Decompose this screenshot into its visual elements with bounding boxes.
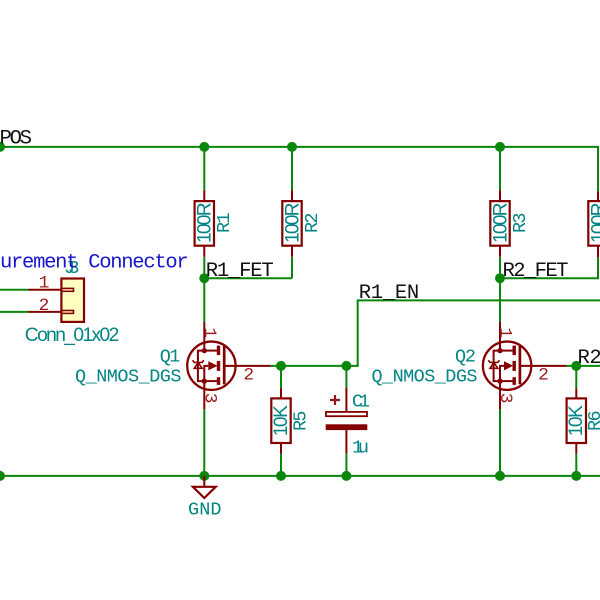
svg-text:3: 3 bbox=[200, 393, 220, 404]
svg-text:Conn_01x02: Conn_01x02 bbox=[25, 325, 120, 346]
svg-text:100R: 100R bbox=[195, 202, 216, 243]
svg-text:2: 2 bbox=[39, 296, 50, 316]
resistor R1 bbox=[195, 190, 235, 257]
wire R5 bottom bbox=[280, 454, 282, 476]
svg-text:GND: GND bbox=[188, 500, 222, 521]
junction top rail at R1 bbox=[199, 142, 209, 152]
resistor R5 bbox=[271, 388, 311, 453]
resistor R2 bbox=[282, 190, 323, 257]
junction bottom rail at GND bbox=[199, 471, 209, 481]
resistor R4 (cut at right edge) bbox=[588, 192, 600, 258]
wire R2_FET net bbox=[500, 257, 598, 279]
svg-text:Q_NMOS_DGS: Q_NMOS_DGS bbox=[75, 367, 182, 388]
wire Q2 drain drop bbox=[499, 278, 501, 322]
svg-text:R1: R1 bbox=[214, 212, 235, 233]
svg-text:POS: POS bbox=[0, 127, 32, 150]
connector J3 bbox=[25, 258, 120, 346]
svg-text:2: 2 bbox=[538, 365, 549, 385]
wire R1_EN net bbox=[270, 300, 600, 366]
junction top rail at R2 bbox=[287, 142, 297, 152]
svg-text:1: 1 bbox=[39, 274, 50, 294]
svg-text:Q2: Q2 bbox=[455, 347, 476, 368]
svg-text:1u: 1u bbox=[352, 437, 369, 458]
wire Q2 source drop bbox=[499, 409, 501, 476]
svg-text:3: 3 bbox=[495, 393, 515, 404]
wire R5 top bbox=[280, 366, 282, 388]
svg-text:100R: 100R bbox=[588, 202, 600, 243]
svg-text:C1: C1 bbox=[352, 391, 370, 412]
svg-text:R3: R3 bbox=[510, 212, 531, 233]
svg-text:R2_FET: R2_FET bbox=[503, 260, 569, 283]
junction bottom rail at R5 bbox=[276, 471, 286, 481]
transistor Q1 bbox=[75, 322, 270, 409]
junction top rail left edge bbox=[0, 142, 5, 152]
wire Q2 gate / R2_EN net bbox=[566, 365, 600, 367]
ground symbol bbox=[188, 476, 222, 521]
junction Q1 gate at R5 bbox=[276, 361, 286, 371]
wire Q1 drain drop bbox=[203, 278, 205, 322]
junction R1_FET node bbox=[199, 273, 209, 283]
wire J3 pin2 bbox=[0, 311, 29, 313]
wire R2 top drop bbox=[291, 147, 293, 190]
wire GND bottom rail bbox=[0, 475, 600, 477]
svg-text:1: 1 bbox=[199, 327, 219, 338]
svg-text:100R: 100R bbox=[490, 202, 511, 243]
junction R2_FET node bbox=[495, 273, 505, 283]
svg-text:R6: R6 bbox=[585, 410, 600, 431]
svg-text:10K: 10K bbox=[271, 405, 292, 436]
svg-text:R1_EN: R1_EN bbox=[359, 282, 419, 305]
junction bottom rail left edge bbox=[0, 471, 5, 481]
junction bottom rail at R6 bbox=[571, 471, 581, 481]
junction top rail at R3 bbox=[495, 142, 505, 152]
wire Q1 source drop bbox=[203, 409, 205, 476]
wire C1 top bbox=[345, 366, 347, 387]
resistor R6 bbox=[566, 388, 600, 453]
wire R6 top bbox=[575, 366, 577, 388]
wire R1_FET net bbox=[204, 257, 292, 279]
resistor R3 bbox=[490, 190, 531, 257]
svg-text:1: 1 bbox=[495, 327, 515, 338]
wire R6 bottom bbox=[575, 454, 577, 476]
wire C1 bottom bbox=[345, 453, 347, 476]
wire J3 pin1 bbox=[0, 289, 29, 291]
svg-text:R5: R5 bbox=[290, 410, 311, 431]
svg-text:R1_FET: R1_FET bbox=[206, 260, 274, 283]
svg-text:Q_NMOS_DGS: Q_NMOS_DGS bbox=[372, 367, 478, 388]
wire R3 top drop bbox=[499, 147, 501, 190]
junction bottom rail at Q2 bbox=[495, 471, 505, 481]
wire R1 top drop bbox=[203, 147, 205, 190]
svg-text:100R: 100R bbox=[282, 202, 303, 243]
svg-text:urement Connector: urement Connector bbox=[0, 251, 189, 274]
svg-text:R2_EN: R2_EN bbox=[578, 347, 600, 370]
svg-text:2: 2 bbox=[243, 365, 254, 385]
capacitor C1 bbox=[326, 387, 370, 458]
junction Q1 gate at C1 bbox=[341, 361, 351, 371]
junction bottom rail at C1 bbox=[341, 471, 351, 481]
svg-text:R2: R2 bbox=[302, 212, 323, 233]
transistor Q2 bbox=[372, 322, 567, 409]
svg-text:Q1: Q1 bbox=[160, 347, 181, 368]
wire POS top rail bbox=[0, 147, 598, 192]
junction Q2 gate at R6 bbox=[571, 361, 581, 371]
